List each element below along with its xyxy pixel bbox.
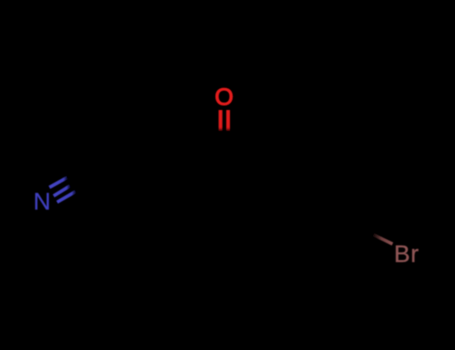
- aromatic inner bonds: [272, 146, 368, 254]
- wire triple bond far halves: [67, 151, 122, 192]
- wire C9 to ring ipso: [224, 158, 265, 163]
- wire C=O lower stubs: [221, 130, 229, 158]
- svg-text:N: N: [33, 189, 50, 216]
- wire black half of Br bond: [357, 227, 375, 236]
- svg-text:O: O: [215, 84, 234, 111]
- wire: carbon skeleton drawn black-on-black (invisible in source): [67, 130, 379, 265]
- nitrile triple bond C#N (blue): [49, 178, 75, 203]
- svg-text:Br: Br: [394, 241, 419, 268]
- benzene ring C6H4: [261, 134, 379, 265]
- ketone C=O double bond (red): [221, 110, 229, 131]
- wire chain C7-C8-C9: [117, 158, 224, 189]
- C-Br bond (brown, fading in from ring): [374, 235, 393, 244]
